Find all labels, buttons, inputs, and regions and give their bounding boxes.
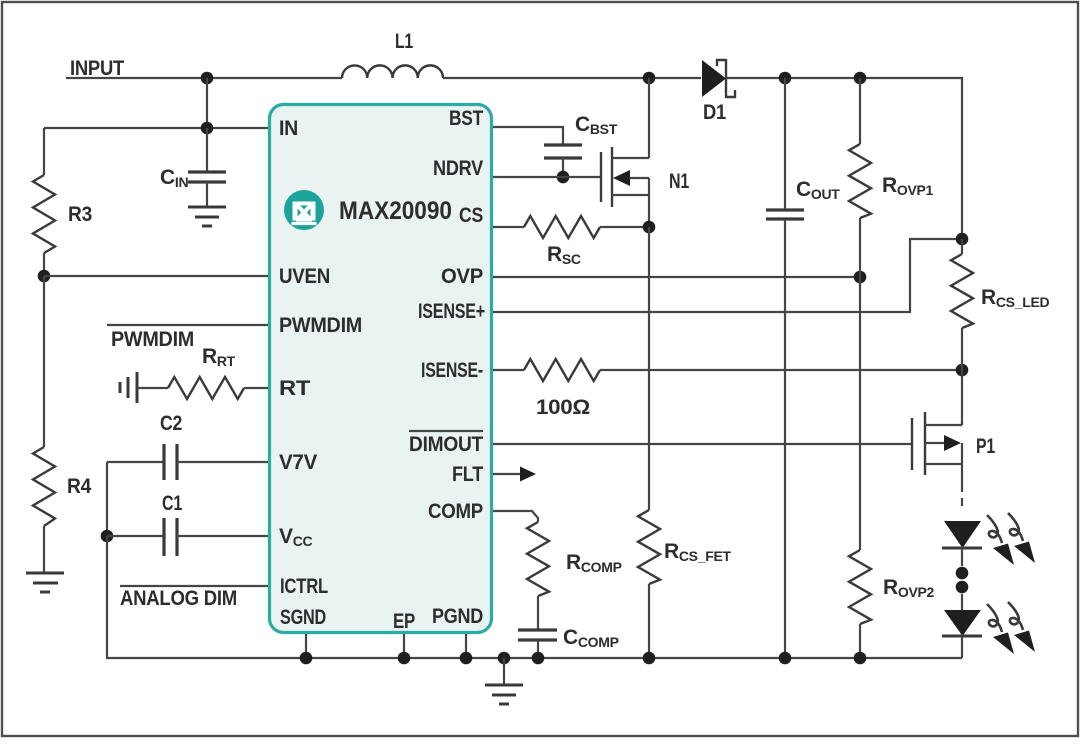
wire RCS_FET to rail <box>648 584 650 658</box>
LED D2 light arrows <box>987 515 1014 565</box>
node CCOMP rail <box>532 652 545 665</box>
wire top rail D1 to right corner, down at x=962 <box>726 78 962 239</box>
capacitor CIN <box>188 172 226 182</box>
wire down to P1 <box>961 370 963 425</box>
ground under CIN <box>188 207 226 226</box>
node ISENSE+ <box>956 233 969 246</box>
wire P1 source toward LED (with break) <box>961 464 963 506</box>
wire ISENSE+ line with jog <box>493 239 962 312</box>
wire COUT to rail <box>784 219 786 658</box>
IC bottom pin stubs: SGND <box>305 634 307 658</box>
node COUT rail <box>779 652 792 665</box>
wire N1 source down to CS node <box>648 195 650 227</box>
node LED string dot 2 <box>956 581 969 594</box>
wire LED D3 to bottom rail <box>961 636 963 658</box>
inductor L1 <box>342 65 443 78</box>
wire VCC line right part <box>177 535 268 537</box>
svg-text:ANALOG DIM: ANALOG DIM <box>120 587 237 610</box>
svg-text:CS: CS <box>459 204 483 227</box>
wire N1 drain up to rail <box>648 78 650 158</box>
wire to LED D3 <box>961 594 963 610</box>
node PGND <box>460 652 473 665</box>
capacitor CCOMP <box>518 630 557 640</box>
resistor RCOMP <box>527 522 549 596</box>
svg-text:FLT: FLT <box>452 463 483 486</box>
svg-text:D1: D1 <box>703 101 727 124</box>
node EP <box>398 652 411 665</box>
op-amp U1 : IC MAX20090 body <box>270 105 492 633</box>
wire RT ground to resistor <box>137 387 168 389</box>
svg-text:SGND: SGND <box>280 606 326 629</box>
node VCC <box>101 530 114 543</box>
svg-text:DIMOUT: DIMOUT <box>409 433 483 456</box>
node ROVP2 rail <box>854 652 867 665</box>
wire RCS_LED top lead <box>961 239 963 254</box>
LED D3 <box>942 610 982 636</box>
Maxim logo <box>284 190 324 230</box>
wire CIN to ground <box>206 182 208 207</box>
svg-text:C2: C2 <box>160 412 182 435</box>
wire corner V7V down to VCC <box>106 462 108 536</box>
transistor P1 <box>912 412 962 475</box>
node CS <box>643 221 656 234</box>
resistor R4 <box>33 447 55 526</box>
ground bottom center <box>485 685 523 704</box>
svg-text:BST: BST <box>449 107 483 130</box>
wire top rail L1 to D1 <box>443 77 701 79</box>
svg-text:V7V: V7V <box>279 451 317 474</box>
wire CBST to NDRV node <box>562 158 564 177</box>
svg-text:UVEN: UVEN <box>279 265 330 288</box>
wire INPUT junction down to IN wire <box>206 78 208 128</box>
node ground stub <box>498 652 511 665</box>
node SGND <box>300 652 313 665</box>
wire IN line <box>44 127 268 129</box>
capacitor C1 <box>164 518 177 556</box>
node LED string dot 1 <box>956 567 969 580</box>
resistor ROVP2 <box>849 550 871 624</box>
wire ROVP1 to OVP node <box>859 218 861 277</box>
diode D1 <box>702 59 735 98</box>
svg-text:ISENSE+: ISENSE+ <box>418 300 485 323</box>
resistor 100ohm <box>524 359 600 381</box>
LED D3 light arrows <box>987 604 1014 654</box>
wire RCOMP to CCOMP <box>537 596 539 630</box>
resistor RSC <box>524 216 600 238</box>
ground under R4 <box>26 573 64 592</box>
wire INPUT rail top <box>66 77 342 79</box>
svg-text:100Ω: 100Ω <box>536 396 590 419</box>
resistor RCS_LED <box>951 254 973 328</box>
wire switch node down to RCS_FET <box>648 227 650 510</box>
resistor RRT <box>168 377 244 399</box>
wire 100ohm to LED sense node <box>600 369 962 371</box>
wire ROVP2 to rail <box>859 624 861 658</box>
wire VCC line left part <box>107 535 164 537</box>
capacitor C2 <box>164 444 177 480</box>
svg-text:OVP: OVP <box>441 265 483 288</box>
wire ICTRL line <box>120 585 268 587</box>
svg-text:NDRV: NDRV <box>433 157 483 180</box>
wire PWMDIM line <box>107 324 268 326</box>
node top rail / N1 drain <box>643 72 656 85</box>
wire R3 bottom to UVEN node <box>43 253 45 276</box>
wire RCS_LED to ISENSE- node <box>961 328 963 370</box>
wire left rail R3 top <box>43 128 45 175</box>
wire PGND stub <box>465 634 467 658</box>
svg-text:C1: C1 <box>162 492 182 515</box>
wire VCC rail down to bottom rail <box>107 536 962 658</box>
wire UVEN line <box>44 275 268 277</box>
svg-text:EP: EP <box>393 610 415 633</box>
wire OVP line <box>493 276 860 278</box>
wire CS pin to RSC <box>493 226 524 228</box>
resistor R3 <box>33 175 55 253</box>
wire BST to CBST <box>493 127 563 145</box>
wire V7V line left part <box>107 461 164 463</box>
node NDRV <box>557 171 570 184</box>
capacitor COUT <box>766 210 804 219</box>
wire FLT arrow <box>493 473 522 475</box>
node IN / CIN <box>201 122 214 135</box>
LED D2 <box>942 521 982 566</box>
svg-text:R3: R3 <box>68 203 92 226</box>
node top rail / CIN <box>201 72 214 85</box>
node OVP / ROVP <box>854 271 867 284</box>
wire R4 to ground <box>43 526 45 573</box>
wire COUT drop <box>784 78 786 210</box>
wire RSC to node <box>600 226 649 228</box>
ground at RT (left-pointing) <box>120 372 137 403</box>
node UVEN <box>38 270 51 283</box>
wire NDRV to N1 gate <box>493 176 601 178</box>
svg-text:PWMDIM: PWMDIM <box>279 314 362 337</box>
svg-text:MAX20090: MAX20090 <box>339 197 452 225</box>
transistor N1 <box>601 147 649 207</box>
wire ROVP1 top lead <box>859 78 861 144</box>
svg-text:R4: R4 <box>67 475 92 498</box>
svg-text:PGND: PGND <box>432 605 483 628</box>
wire ground stub <box>503 658 505 685</box>
svg-text:IN: IN <box>279 117 298 140</box>
resistor RCS_FET <box>638 510 660 584</box>
wire ISENSE- to 100ohm <box>493 369 524 371</box>
wire RRT to RT pin <box>244 387 268 389</box>
svg-text:ICTRL: ICTRL <box>280 575 328 598</box>
wire ROVP2 top lead <box>859 277 861 550</box>
svg-text:N1: N1 <box>669 170 689 193</box>
wire CIN top lead <box>206 128 208 172</box>
capacitor CBST <box>544 145 582 158</box>
svg-text:L1: L1 <box>395 30 413 53</box>
node top rail / ROVP1 <box>854 72 867 85</box>
node top rail / COUT <box>779 72 792 85</box>
svg-text:ISENSE-: ISENSE- <box>421 359 483 382</box>
svg-text:PWMDIM: PWMDIM <box>111 328 194 351</box>
wire COMP to RCOMP <box>493 511 538 522</box>
node RCS_FET rail <box>643 652 656 665</box>
wire left rail to R4 <box>43 276 45 447</box>
svg-text:INPUT: INPUT <box>70 57 124 80</box>
resistor ROVP1 <box>849 144 871 218</box>
wire V7V line right part <box>177 461 268 463</box>
node ISENSE- <box>956 364 969 377</box>
wire CCOMP to rail <box>537 640 539 658</box>
svg-text:RT: RT <box>279 377 311 400</box>
svg-text:COMP: COMP <box>428 500 483 523</box>
wire DIMOUT to P1 gate <box>493 443 912 445</box>
svg-text:P1: P1 <box>976 435 995 458</box>
wire EP stub <box>403 634 405 658</box>
